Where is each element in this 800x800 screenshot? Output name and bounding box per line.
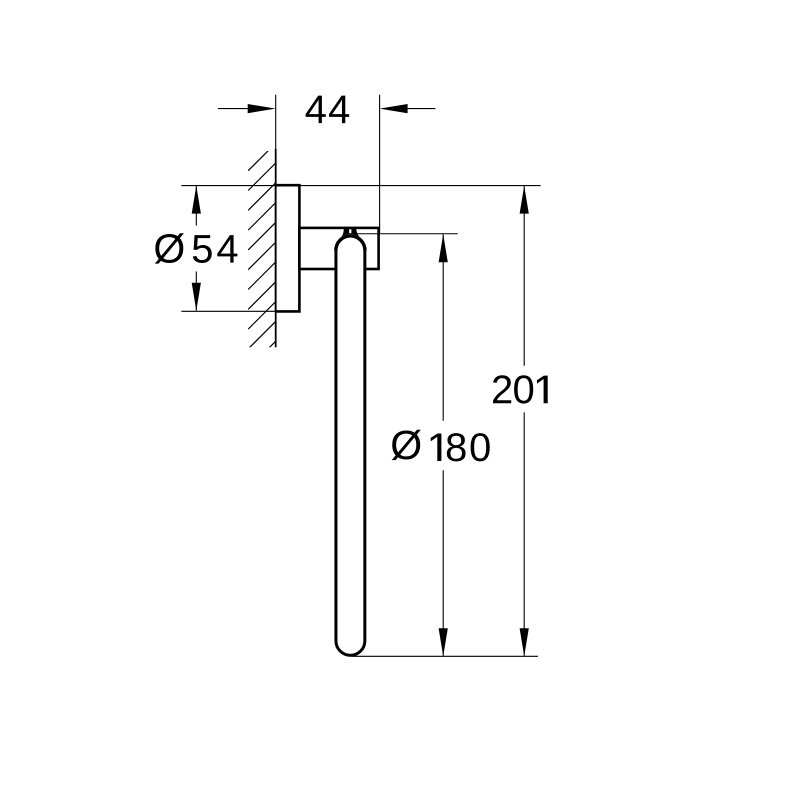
dimension 201: lower line and arrow — [523, 412, 525, 655]
extension line: ring top — [357, 233, 458, 235]
wall face line — [275, 149, 277, 347]
extension line: plate top / 201 top — [181, 185, 540, 187]
dimension 44: left arrow — [218, 108, 252, 110]
dimension 44 label — [306, 96, 350, 124]
extension line: ring bottom / 201 bottom — [353, 655, 538, 657]
extension line: plate bottom — [181, 310, 276, 312]
extension line: wall face up to 44 dimension — [275, 95, 277, 151]
wall face line over plate edge — [275, 185, 277, 311]
pivot pin — [341, 228, 360, 237]
wall hatching — [248, 143, 276, 369]
pivot pin slit — [349, 229, 351, 233]
dimension D54: lower line and arrow — [195, 272, 197, 311]
dimension D180 label — [392, 430, 421, 460]
dimension D54 label — [155, 233, 184, 263]
dimension 201 label — [493, 375, 548, 403]
dimension D180: upper line and arrow — [442, 234, 444, 420]
holder body — [299, 228, 378, 269]
towel ring tube (side profile) — [336, 236, 365, 655]
dimension D180: lower line and arrow — [442, 470, 444, 656]
dimension 44: right arrow — [404, 108, 435, 110]
dimension D54: upper line and arrow — [195, 186, 197, 226]
dimension 201: upper line and arrow — [523, 186, 525, 366]
ring top thick arc — [334, 234, 367, 250]
escutcheon plate (side view) — [275, 185, 299, 311]
extension line: holder front for 44 dimension — [379, 95, 381, 234]
